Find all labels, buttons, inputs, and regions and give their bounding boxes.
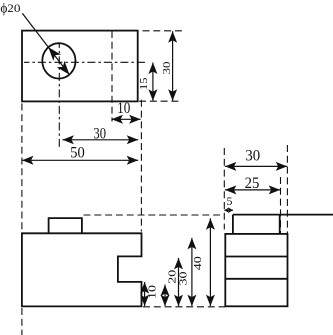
top edge extension right [143,30,182,32]
svg-text:15: 15 [138,77,150,90]
side view outline [225,234,287,306]
svg-text:50: 50 [70,144,85,162]
svg-text:20: 20 [7,2,20,15]
dimension 30 (top view right) [172,31,174,101]
svg-text:30: 30 [245,147,260,165]
side view tab right edge [279,215,281,234]
projection line tab top to side view [84,214,225,216]
horizontal center line of hole [24,61,147,63]
leader arrowhead lower [57,61,70,75]
extension line side view right edge [286,145,288,234]
front view outline [22,233,142,306]
dimension 20 (front view) [178,258,180,306]
dimension 40 (front view) [209,218,211,306]
svg-text:10: 10 [117,99,130,117]
hole circle [42,43,75,78]
front view boss tab [49,218,82,233]
top view outline [22,31,138,102]
dimension 30 (above side view) [225,165,287,167]
vertical center line of hole [58,43,60,148]
leader arrowhead upper [48,47,61,61]
svg-text:30: 30 [161,61,173,75]
bottom edge extension right [139,100,182,102]
svg-text:10: 10 [147,284,159,299]
dimension 10 (front view) [164,285,166,307]
short dimension arrow (10) at notch [144,282,146,306]
side view internal line 1 [225,256,287,258]
hidden edge line x=112 [111,31,113,122]
dimension 30 (below top view) [62,139,138,141]
svg-text:5: 5 [226,194,232,208]
dimension 10 (below top view) [112,118,141,120]
extension line tab right edge [280,177,282,234]
left extension line below front view [21,308,23,335]
extension line left of side view [223,148,225,230]
side view tab top edge extending right [233,214,333,216]
dimension 25 (above side view) [225,189,280,191]
side view internal line 2 [225,278,287,280]
dimension 30 (front view) [191,238,193,306]
dimension 5 (side view step) [224,209,233,211]
bottom projection line front to side view [143,306,225,308]
dimension 15 (top view right) [152,63,154,101]
dimension 50 (below top view) [22,159,138,161]
leader line phi20 [22,13,69,74]
right projection line x=141.4 [140,100,142,232]
svg-text:25: 25 [245,174,260,192]
svg-text:30: 30 [178,271,190,286]
side view tab left edge [232,215,234,234]
svg-text:40: 40 [192,256,204,271]
svg-text:30: 30 [93,124,106,142]
left extension line [21,104,23,234]
